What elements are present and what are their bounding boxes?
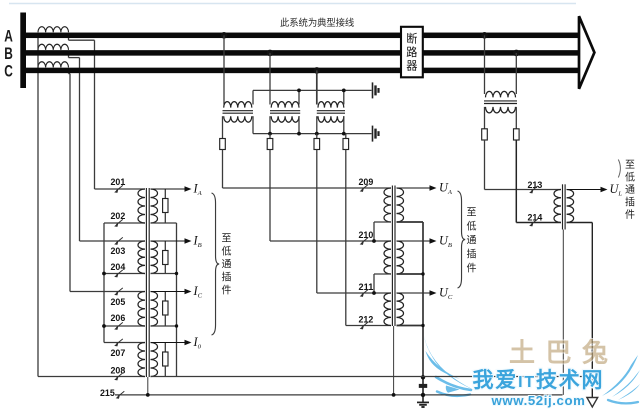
- TR2 secondary return wire: [567, 222, 593, 224]
- fuse FU5 + wire to 213: [484, 107, 486, 129]
- transformer TP1 secondary winding: [397, 188, 404, 222]
- ground (bottom rail): [373, 126, 379, 142]
- svg-text:通: 通: [625, 184, 635, 196]
- CT coil on bus A: [38, 27, 69, 33]
- svg-text:214: 214: [528, 213, 543, 224]
- PT block core: [391, 186, 393, 327]
- CT secondary neutral wire: [176, 223, 178, 377]
- wire: CT B lead to 203: [68, 52, 70, 58]
- bus outgoing arrow: [579, 16, 594, 89]
- svg-text:插: 插: [222, 271, 232, 284]
- feed wire B to TM2: [269, 53, 271, 105]
- terminal 210 tap: [360, 237, 369, 245]
- wire: common CT return lead (left, to 208): [37, 33, 39, 377]
- svg-text:204: 204: [111, 262, 126, 273]
- wire: CT A lead to 201: [68, 35, 70, 40]
- grounding link: [419, 384, 427, 388]
- svg-text:器: 器: [406, 60, 417, 73]
- wire 204: [104, 273, 145, 275]
- bus tap junction A2: [481, 32, 488, 39]
- svg-text:213: 213: [528, 180, 543, 191]
- bridge wire 202-204-206-207: [103, 223, 105, 343]
- fuse FU3 + feed wire to 211: [316, 134, 318, 139]
- junction neutral / rail: [421, 375, 425, 379]
- bus C: [26, 68, 579, 74]
- svg-text:低: 低: [625, 171, 635, 184]
- terminal 215 tap: [116, 391, 125, 399]
- CT neutral rail (to right): [177, 376, 593, 378]
- brace (CT outputs): [212, 193, 220, 335]
- svg-text:件: 件: [222, 285, 232, 297]
- bus B: [26, 50, 579, 56]
- terminal 211 tap: [360, 289, 369, 297]
- junction CT core / 215: [146, 393, 150, 397]
- terminal 204 tap: [114, 270, 123, 278]
- terminal 209 tap: [360, 184, 369, 192]
- transformer TL1 secondary winding: [151, 189, 158, 223]
- bus A: [26, 33, 579, 39]
- bus tap junction A1: [221, 32, 228, 39]
- wire 202: [104, 222, 145, 224]
- svg-text:A: A: [4, 27, 13, 46]
- svg-text:201: 201: [111, 177, 126, 188]
- svg-text:断: 断: [406, 32, 417, 46]
- svg-text:www.52ij.com: www.52ij.com: [491, 393, 586, 408]
- transformer TM2 core: [270, 110, 300, 112]
- junction 204: [102, 272, 106, 276]
- fuse FU4 + feed wire to 212: [345, 134, 347, 139]
- watermark butterfly left wing: [424, 336, 474, 393]
- svg-text:件: 件: [625, 209, 635, 221]
- terminal 213 tap: [529, 186, 538, 194]
- wire TP2 primary bottom to 211: [374, 273, 391, 275]
- terminal 206 tap: [114, 322, 123, 330]
- svg-text:土巴兔: 土巴兔: [509, 338, 619, 368]
- resistor R2: [164, 241, 166, 251]
- svg-text:插: 插: [467, 248, 477, 261]
- svg-text:通: 通: [467, 235, 477, 247]
- junction 206: [102, 324, 106, 328]
- svg-text:202: 202: [111, 211, 126, 222]
- terminal 212 tap: [360, 322, 369, 330]
- transformer TR2 core: [562, 184, 564, 229]
- svg-text:208: 208: [111, 366, 126, 377]
- circuit breaker 断路器: [401, 27, 423, 78]
- svg-text:至: 至: [467, 207, 477, 219]
- transformer TR1 secondary: [486, 107, 516, 113]
- transformer TM2 (B-phase PT) primary: [271, 102, 299, 108]
- wire: CT C lead to 205: [68, 69, 70, 74]
- junction PT core / 215: [392, 393, 396, 397]
- transformer TL4 secondary winding: [151, 343, 158, 377]
- feed wire A to TR1: [484, 35, 486, 94]
- fuse FU2 + feed wire to 210: [269, 134, 271, 139]
- small brace (U_L): [618, 160, 620, 178]
- transformer TM3 (C-phase PT) primary: [318, 102, 344, 108]
- output arrow I_B: [151, 240, 186, 242]
- fuse FU6 + wire to 214: [515, 107, 517, 129]
- svg-text:B: B: [4, 44, 13, 63]
- feed wire A to TM1: [223, 35, 225, 104]
- feed wire B to TR1: [515, 53, 517, 94]
- transformer TM3 secondary: [318, 116, 344, 122]
- transformer TL3 secondary winding: [151, 292, 158, 327]
- earth ground symbol: [417, 401, 429, 403]
- transformer TL4 primary winding: [138, 343, 145, 377]
- transformer TR2 primary winding: [554, 190, 561, 223]
- bus tap junction B2: [513, 50, 520, 57]
- transformer TP2 primary winding: [384, 241, 391, 274]
- transformer TM3 core: [317, 110, 345, 112]
- transformer TM1 core: [223, 110, 254, 112]
- svg-text:205: 205: [111, 297, 126, 308]
- transformer TM1 (A-phase PT) primary: [224, 102, 252, 108]
- terminal 205 tap: [114, 288, 123, 296]
- bus tap junction B1: [267, 50, 274, 57]
- resistor R3: [164, 292, 166, 302]
- terminal 201 tap: [114, 185, 123, 193]
- transformer TL2 primary winding: [138, 241, 145, 274]
- output arrow U_A: [397, 187, 431, 189]
- transformer TP3 secondary winding: [397, 293, 404, 326]
- transformer TP3 primary winding: [384, 293, 391, 326]
- svg-text:此系统为典型接线: 此系统为典型接线: [280, 17, 355, 28]
- svg-text:C: C: [4, 62, 13, 81]
- secondary bottom wire: [151, 325, 177, 327]
- transformer TM2 secondary: [271, 116, 299, 122]
- svg-text:我爱IT技术网: 我爱IT技术网: [473, 369, 605, 392]
- svg-text:件: 件: [467, 263, 477, 275]
- transformer TR1 primary: [486, 91, 516, 97]
- wire 206: [104, 325, 145, 327]
- output arrow U_B: [397, 240, 431, 242]
- svg-text:通: 通: [222, 259, 232, 271]
- output arrow I_A: [151, 188, 186, 190]
- resistor R1: [164, 189, 166, 199]
- CT coil on bus C: [38, 62, 69, 68]
- output arrow U_C: [397, 292, 431, 294]
- secondary bottom wire: [151, 376, 177, 378]
- svg-text:207: 207: [111, 348, 126, 359]
- top ground rail: [253, 89, 372, 91]
- CT block core: [145, 188, 147, 377]
- transformer TL2 secondary winding: [151, 241, 158, 274]
- ground arrow (open): [587, 398, 598, 408]
- terminal 208 tap: [114, 373, 123, 381]
- bottom ground rail: [253, 133, 372, 135]
- svg-text:至: 至: [222, 233, 232, 245]
- junction neutral / 215: [421, 393, 425, 397]
- transformer TL3 primary winding: [138, 292, 145, 327]
- ground (top rail): [373, 82, 379, 98]
- busbar left terminal bar: [20, 13, 26, 89]
- wire 215 (ground rail): [115, 394, 563, 396]
- svg-text:215: 215: [100, 388, 115, 399]
- output arrow I_C: [151, 291, 186, 293]
- svg-text:路: 路: [406, 45, 417, 59]
- svg-text:206: 206: [111, 313, 126, 324]
- brace (PT outputs): [458, 191, 466, 288]
- terminal 214 tap: [529, 219, 538, 227]
- svg-text:低: 低: [467, 220, 477, 233]
- svg-text:低: 低: [222, 245, 232, 258]
- PT secondary neutral: [397, 221, 424, 223]
- svg-text:203: 203: [111, 246, 126, 257]
- wire 207: [104, 342, 145, 344]
- output arrow I_0: [151, 342, 186, 344]
- svg-text:插: 插: [625, 196, 635, 209]
- resistor R4: [164, 343, 166, 353]
- transformer TM1 secondary: [224, 116, 252, 122]
- terminal 202 tap: [114, 219, 123, 227]
- transformer TP2 secondary winding: [397, 241, 404, 274]
- bus tap junction C1: [314, 67, 321, 74]
- CT coil on bus B: [38, 44, 69, 50]
- terminal 207 tap: [114, 339, 123, 347]
- transformer TR2 secondary winding: [567, 190, 574, 223]
- secondary bottom wire: [151, 273, 177, 275]
- transformer TR1 core: [484, 100, 517, 102]
- output arrow U_L: [567, 189, 602, 191]
- wire TP1 primary bottom to 210: [374, 221, 391, 223]
- secondary bottom wire: [151, 222, 177, 224]
- watermark butterfly right wing: [602, 355, 640, 400]
- transformer TL1 primary winding: [138, 189, 145, 223]
- transformer TP1 primary winding: [384, 188, 391, 222]
- terminal 203 tap: [114, 237, 123, 245]
- fuse FU1 + feed wire to 209: [222, 116, 224, 138]
- feed wire C to TM3: [316, 70, 318, 104]
- svg-text:至: 至: [625, 159, 635, 171]
